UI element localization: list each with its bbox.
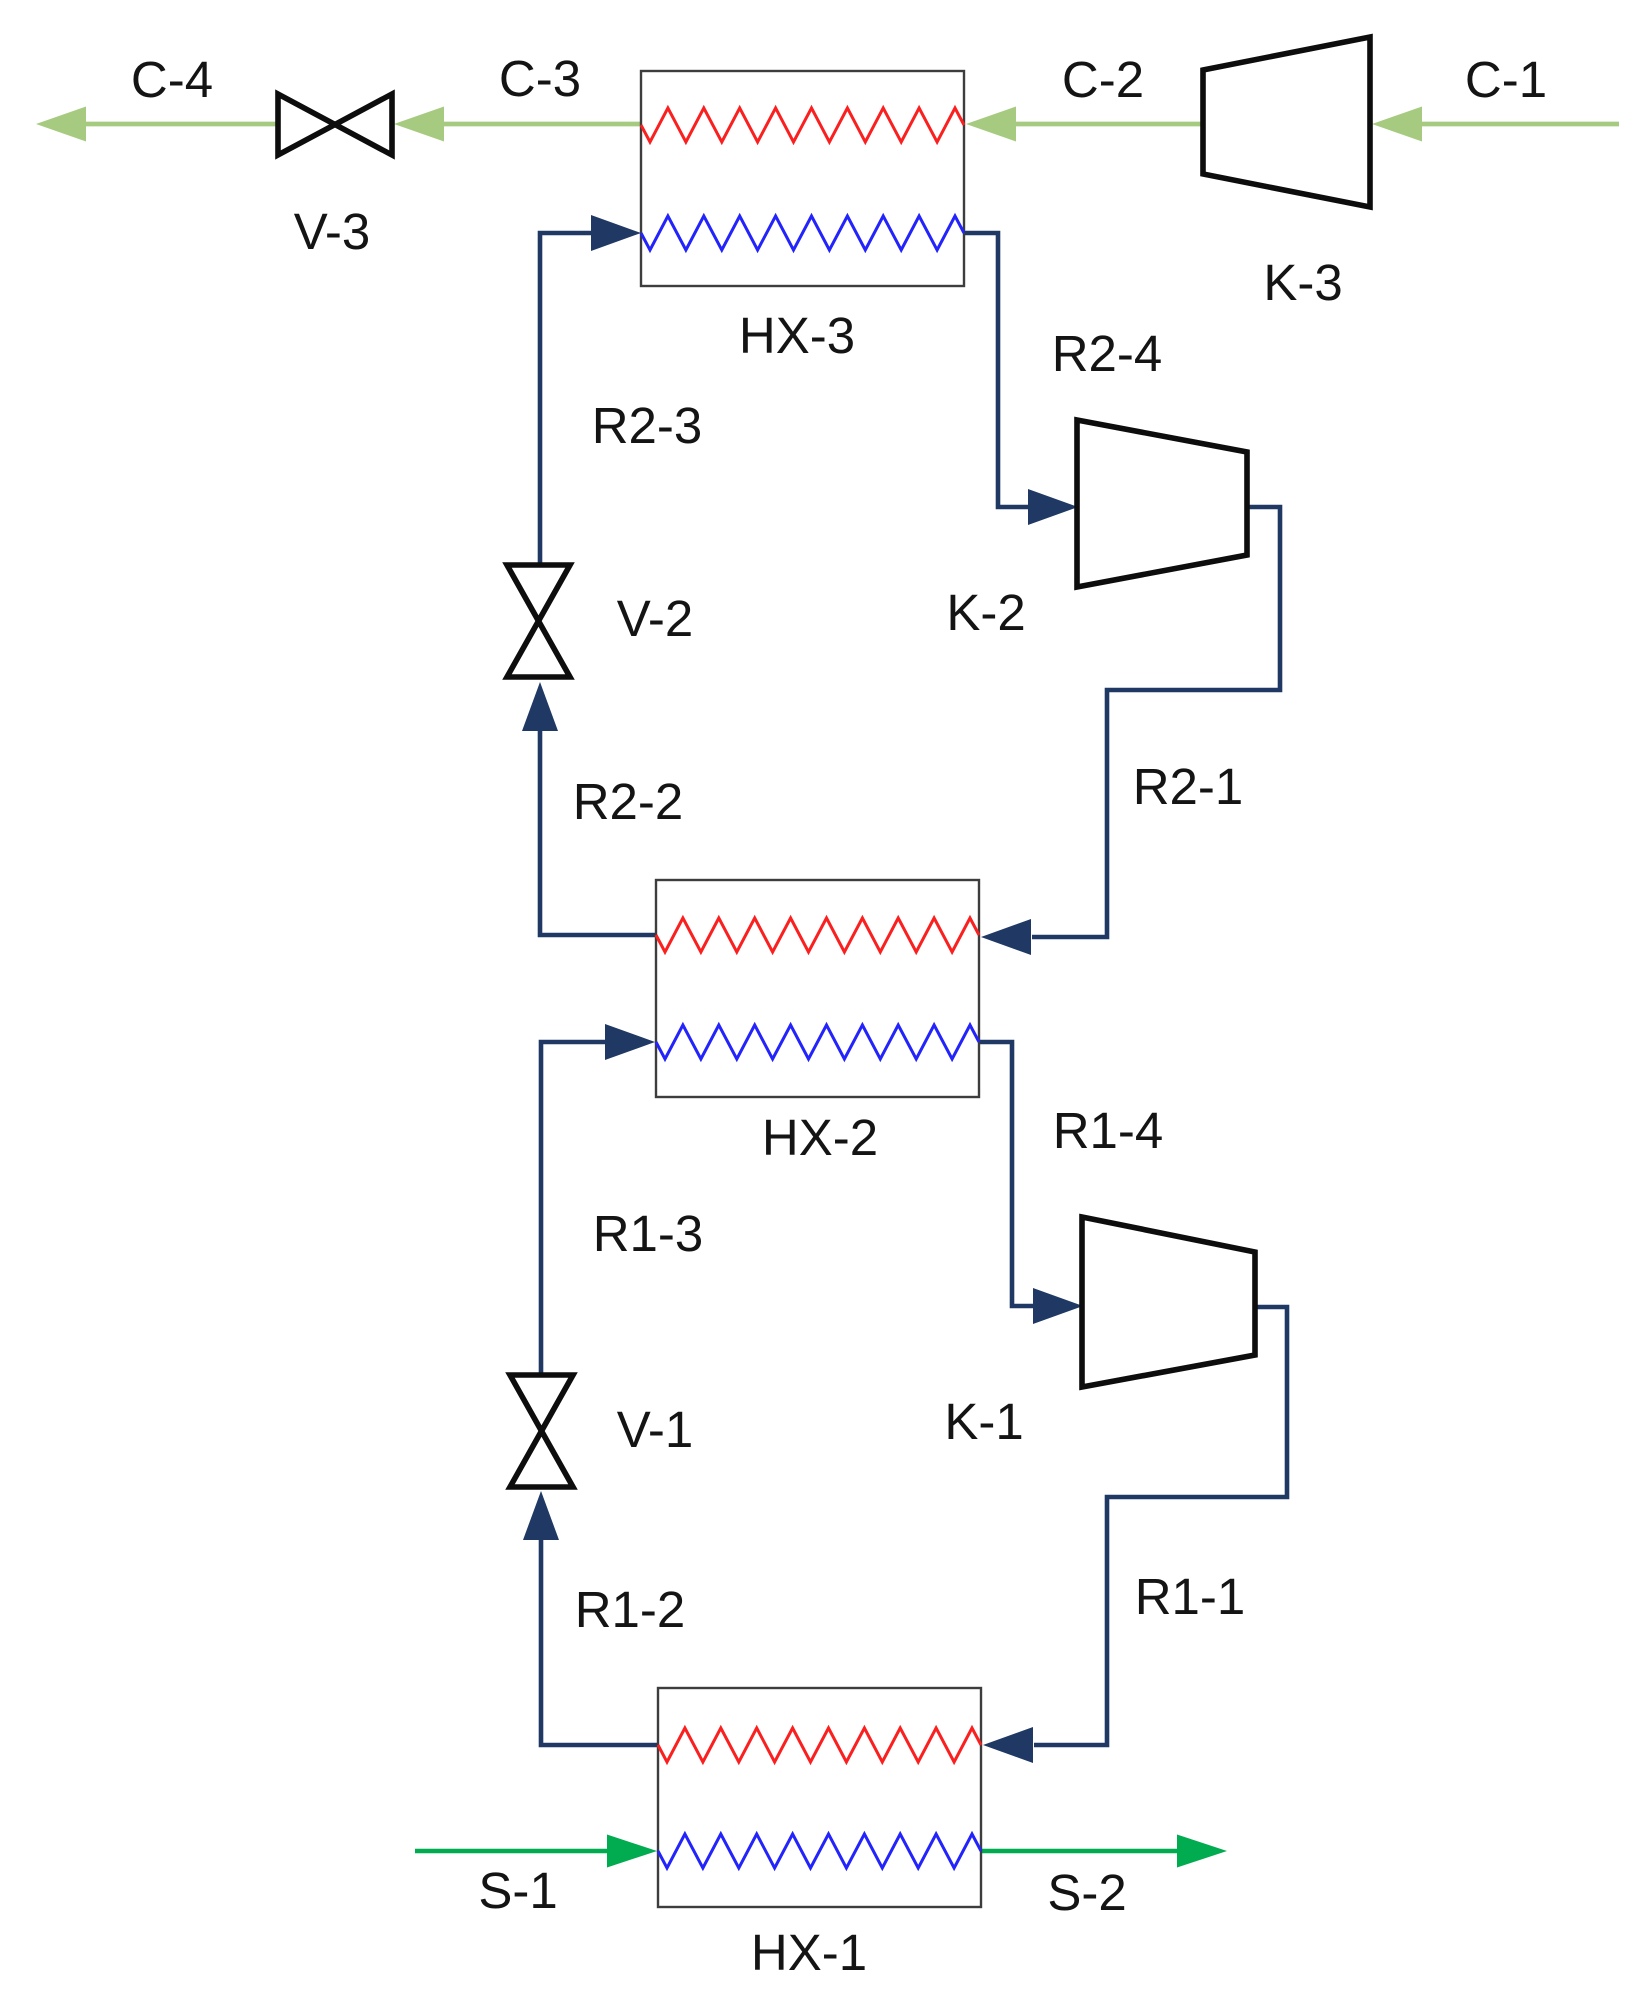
heat exchanger HX-3 hot coil (red zigzag): [641, 108, 964, 142]
label C-1: [1465, 51, 1547, 108]
svg-text:C-4: C-4: [131, 51, 213, 108]
wire C-3 (light green stream, HX-3 to valve V-3): [394, 107, 642, 142]
label K-2: [946, 584, 1025, 641]
label HX-1: [751, 1924, 867, 1981]
wire R2-3 (navy, valve V-2 up to HX-3 cold inlet): [540, 215, 641, 565]
label C-2: [1062, 51, 1144, 108]
compressor K-3: [1203, 37, 1370, 207]
wire C-1 (light green stream, right edge into K-3): [1372, 107, 1619, 142]
svg-text:C-2: C-2: [1062, 51, 1144, 108]
svg-text:S-2: S-2: [1047, 1864, 1126, 1921]
svg-text:HX-1: HX-1: [751, 1924, 867, 1981]
label R2-3: [592, 397, 703, 454]
wire R2-4 (navy, HX-3 cold outlet down to K-2 inlet): [964, 233, 1078, 525]
svg-text:R2-1: R2-1: [1133, 758, 1244, 815]
label K-3: [1263, 254, 1342, 311]
svg-text:C-1: C-1: [1465, 51, 1547, 108]
label HX-2: [762, 1109, 878, 1166]
wire R1-1 (navy, K-1 outlet to HX-1 hot inlet): [983, 1307, 1287, 1763]
svg-text:R2-3: R2-3: [592, 397, 703, 454]
wire S-1 (green feed stream into HX-1): [415, 1835, 657, 1868]
valve V-3 (horizontal bowtie): [278, 94, 392, 155]
valve V-1 (vertical bowtie): [510, 1375, 573, 1487]
wire R1-3 (navy, valve V-1 up to HX-2 cold inlet): [541, 1024, 655, 1375]
svg-text:HX-2: HX-2: [762, 1109, 878, 1166]
label V-3: [294, 203, 371, 260]
label V-1: [617, 1401, 694, 1458]
wire R2-2 (navy, HX-2 hot outlet up to valve V-2): [522, 682, 656, 935]
label C-4: [131, 51, 213, 108]
svg-text:V-1: V-1: [617, 1401, 694, 1458]
label R2-1: [1133, 758, 1244, 815]
label R1-4: [1053, 1102, 1164, 1159]
label R1-1: [1135, 1568, 1246, 1625]
heat exchanger HX-1 hot coil (red zigzag): [658, 1728, 981, 1762]
label R2-4: [1052, 325, 1163, 382]
label R1-2: [575, 1581, 686, 1638]
wire R1-4 (navy, HX-2 cold outlet down to K-1 inlet): [979, 1042, 1083, 1324]
svg-text:K-3: K-3: [1263, 254, 1342, 311]
heat exchanger HX-1 box: [658, 1688, 981, 1907]
label R2-2: [573, 773, 684, 830]
svg-text:R1-2: R1-2: [575, 1581, 686, 1638]
heat exchanger HX-2 hot coil (red zigzag): [656, 918, 979, 952]
label C-3: [499, 50, 581, 107]
heat exchanger HX-3 cold coil (blue zigzag): [641, 216, 964, 250]
svg-text:R1-4: R1-4: [1053, 1102, 1164, 1159]
wire R2-1 (navy, K-2 outlet to HX-2 hot inlet): [981, 507, 1280, 955]
svg-text:HX-3: HX-3: [739, 307, 855, 364]
label V-2: [617, 590, 694, 647]
svg-text:K-1: K-1: [944, 1393, 1023, 1450]
compressor K-1: [1082, 1217, 1255, 1387]
label R1-3: [593, 1205, 704, 1262]
wire S-2 (green product stream out of HX-1): [981, 1835, 1227, 1868]
heat exchanger HX-2 box: [656, 880, 979, 1097]
compressor K-2: [1077, 420, 1247, 587]
label S-1: [478, 1862, 557, 1919]
wire C-2 (light green stream, K-3 to HX-3): [966, 107, 1203, 142]
label K-1: [944, 1393, 1023, 1450]
wire C-4 (light green stream, HX-3/V-3 outlet to left edge): [36, 107, 280, 142]
svg-text:S-1: S-1: [478, 1862, 557, 1919]
svg-text:R2-4: R2-4: [1052, 325, 1163, 382]
svg-text:V-3: V-3: [294, 203, 371, 260]
svg-text:K-2: K-2: [946, 584, 1025, 641]
svg-text:C-3: C-3: [499, 50, 581, 107]
svg-text:R1-1: R1-1: [1135, 1568, 1246, 1625]
heat exchanger HX-2 cold coil (blue zigzag): [656, 1025, 979, 1059]
label S-2: [1047, 1864, 1126, 1921]
svg-text:R2-2: R2-2: [573, 773, 684, 830]
svg-text:V-2: V-2: [617, 590, 694, 647]
heat exchanger HX-1 cold coil (blue zigzag): [658, 1834, 981, 1868]
wire R1-2 (navy, HX-1 hot outlet up to valve V-1): [523, 1491, 658, 1745]
heat exchanger HX-3 box: [641, 71, 964, 286]
svg-text:R1-3: R1-3: [593, 1205, 704, 1262]
valve V-2 (vertical bowtie): [507, 565, 570, 677]
label HX-3: [739, 307, 855, 364]
